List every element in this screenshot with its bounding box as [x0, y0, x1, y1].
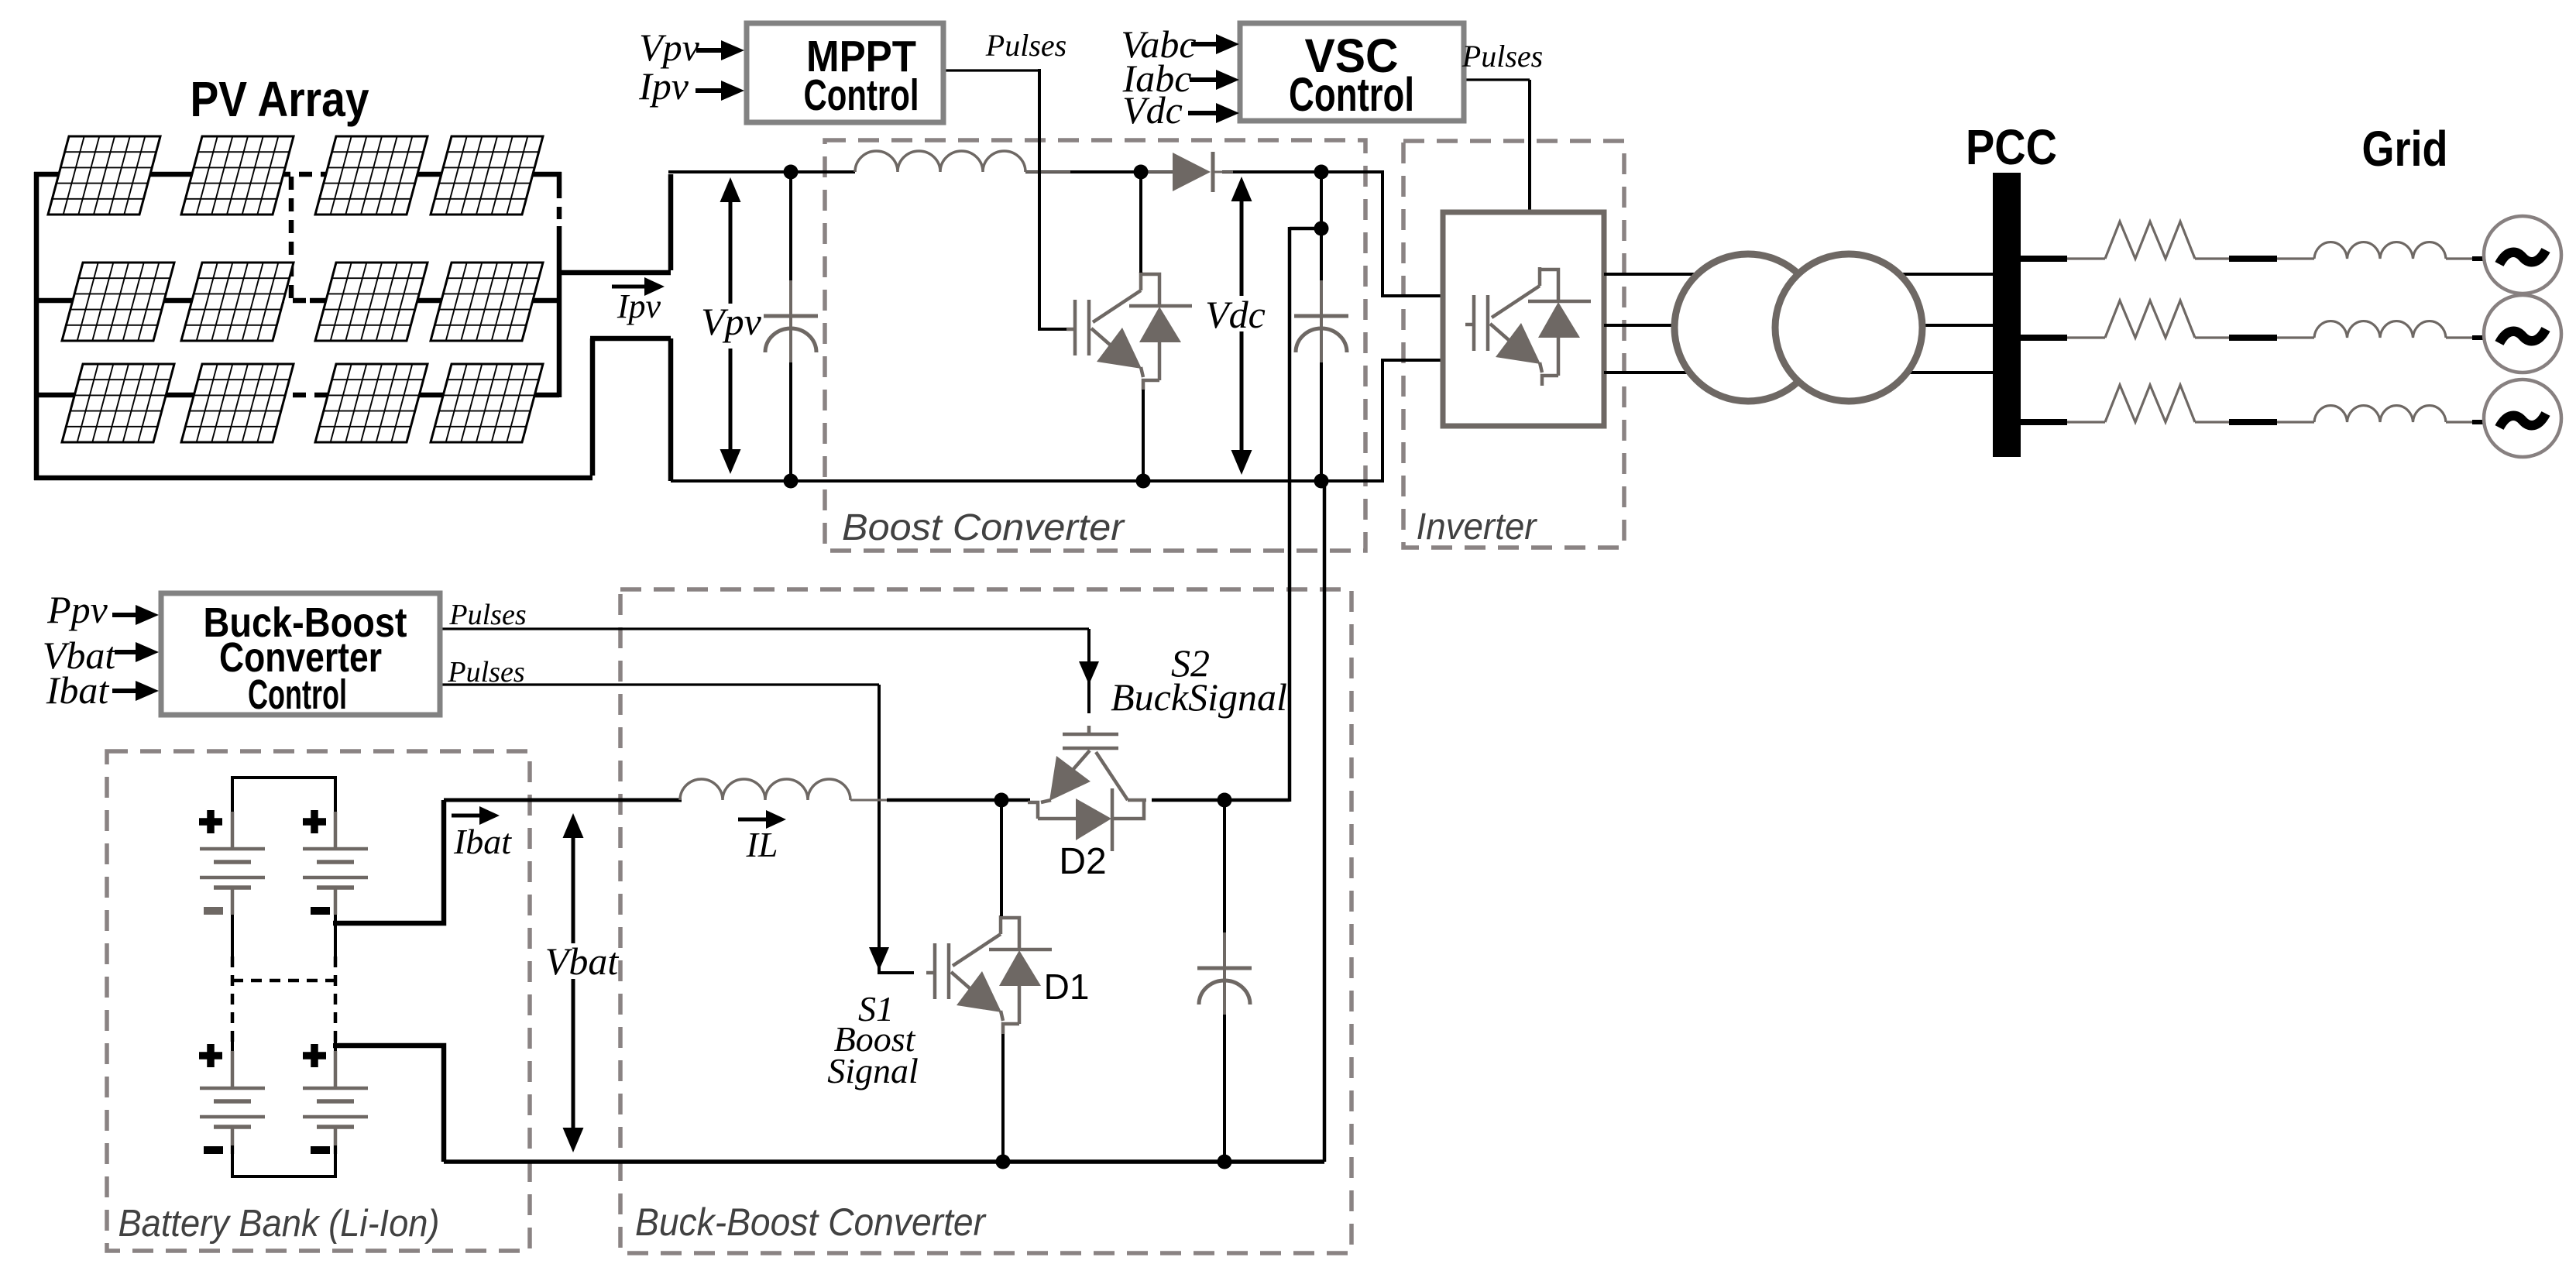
svg-text:D1: D1 — [1044, 967, 1090, 1007]
label - cell B1 — [311, 907, 330, 915]
label + cell A2 — [199, 1044, 222, 1067]
transformer secondary winding — [1775, 254, 1922, 401]
wire source stub phase a — [2472, 256, 2486, 261]
buck-boost bottom rail wire — [444, 1159, 1324, 1164]
inductor Lc grid — [2314, 406, 2446, 422]
wire MPPT pulses vertical — [1039, 69, 1066, 329]
resistor Rc grid — [2105, 385, 2195, 422]
wire buck-boost pulses 2 horizontal — [440, 683, 879, 685]
PV panel row1 col4 — [431, 136, 543, 215]
DC top rail corner drop to inverter — [1382, 170, 1443, 296]
svg-text:Ipv: Ipv — [638, 64, 689, 108]
wire inverter output phase b — [1604, 324, 1993, 327]
svg-text:Vdc: Vdc — [1205, 293, 1266, 336]
wire S1 collector — [1000, 800, 1003, 916]
wire S1 gate drop — [878, 685, 881, 973]
wire battery string B link — [334, 1042, 337, 1051]
AC source Vb grid — [2484, 295, 2561, 373]
transistor S boost (IGBT/diode) — [1066, 272, 1192, 390]
wire inverter output phase a — [1604, 273, 1993, 276]
label + cell B2 — [303, 1044, 326, 1067]
PV right bus solid stub — [557, 172, 562, 186]
wire buck-boost pulses 1 horizontal — [440, 627, 1089, 630]
arrow Ipv input — [696, 88, 726, 93]
svg-text:Ibat: Ibat — [46, 668, 110, 712]
boost converter dashed boundary box — [825, 140, 1365, 551]
PV row 2 wire right segment — [310, 298, 562, 304]
arrow Vpv measure — [729, 197, 733, 454]
label Vdc measure bg — [1203, 296, 1268, 331]
inductor L buck-boost — [680, 779, 850, 800]
svg-text:IL: IL — [746, 825, 778, 864]
svg-text:Grid: Grid — [2362, 121, 2448, 177]
svg-text:Inverter: Inverter — [1417, 507, 1538, 548]
wire R-L link segment phase b — [2229, 335, 2277, 341]
VSC Control block — [1240, 23, 1464, 121]
svg-text:Vpv: Vpv — [639, 26, 700, 69]
PV return drop wire — [668, 338, 674, 481]
PV panel row1 col2 — [181, 136, 294, 215]
wire S1 gate horizontal — [878, 971, 914, 974]
node Cout rail — [1218, 1155, 1232, 1169]
wire inductor lead phase a — [2277, 257, 2314, 259]
svg-text:Ibat: Ibat — [453, 822, 512, 861]
wire S boost collector — [1139, 172, 1142, 273]
wire VSC pulses vertical — [1528, 80, 1531, 214]
label + cell B1 — [303, 810, 326, 833]
inductor Lb grid — [2314, 321, 2446, 338]
svg-text:Pulses: Pulses — [447, 656, 524, 689]
AC source Vc grid — [2484, 379, 2561, 457]
wire Cpv bottom lead — [789, 362, 792, 481]
svg-text:Ipv: Ipv — [617, 287, 661, 325]
DC bottom rail corner rise to inverter — [1382, 360, 1443, 483]
transistor S2 (IGBT/diode rotated) — [1028, 726, 1146, 851]
arrow Vabc input — [1191, 42, 1221, 46]
battery cell B2 — [303, 1051, 368, 1154]
node DC link jog — [1314, 222, 1329, 236]
PV right bus wire — [557, 226, 562, 397]
svg-text:Vbat: Vbat — [545, 939, 620, 983]
diode D boost — [1173, 153, 1211, 191]
Buck-Boost Converter Control block — [161, 593, 440, 715]
battery cell A2 — [200, 1051, 265, 1154]
wire Cout bottom lead — [1223, 1015, 1226, 1162]
wire battery string A link — [231, 1042, 234, 1051]
PV right bus dashed segment — [557, 186, 562, 226]
capacitor Cdc — [1294, 280, 1348, 364]
wire inductor lead phase b — [2277, 336, 2314, 338]
transformer primary winding — [1674, 254, 1822, 401]
svg-text:PCC: PCC — [1966, 119, 2057, 175]
wire Cdc bottom lead — [1320, 362, 1323, 481]
PV panel row2 col3 — [315, 263, 428, 341]
PV row 2 dashed wire segment — [249, 298, 310, 304]
PV panel row2 col4 — [431, 263, 543, 341]
diode D boost cathode bar — [1211, 152, 1215, 192]
wire battery string B upper — [334, 915, 337, 925]
wire inductor lead phase c — [2277, 421, 2314, 423]
inductor L boost — [855, 151, 1025, 172]
wire inductor lead — [1025, 171, 1070, 173]
wire battery output negative — [333, 1046, 444, 1162]
AC source Va grid — [2484, 216, 2561, 294]
arrow Vdc input — [1188, 111, 1221, 115]
capacitor Cpv — [764, 280, 818, 364]
PV panel row2 col2 — [181, 263, 294, 341]
MPPT Control block — [747, 23, 943, 122]
wire resistor lead phase c — [2067, 421, 2105, 423]
wire S1 node to S2 — [1001, 798, 1030, 802]
arrow Ppv input — [112, 613, 140, 617]
PV row 1 wire right segment — [328, 172, 562, 177]
inductor La grid — [2314, 242, 2446, 259]
wire S1 emitter — [1001, 1034, 1005, 1162]
arrow IL — [738, 818, 771, 822]
resistor Rb grid — [2105, 301, 2195, 338]
wire S2 output to node — [1152, 798, 1224, 802]
DC bottom rail wire — [671, 479, 1382, 483]
wire resistor lead phase a — [2067, 257, 2105, 259]
wire battery dashed jumper — [232, 979, 335, 983]
arrow Vbat input — [115, 650, 140, 654]
wire battery string B dashed — [334, 956, 338, 1042]
wire source lead phase b — [2446, 336, 2472, 338]
wire R-L link lead phase c — [2195, 421, 2229, 423]
PV return wire — [590, 336, 671, 342]
PV return riser wire — [590, 338, 596, 476]
wire R-L link segment phase a — [2229, 256, 2277, 262]
wire DC link positive drop — [1288, 227, 1292, 802]
PV array bottom wire — [34, 476, 592, 481]
PV output wire top — [557, 270, 671, 276]
arrow Iabc input — [1190, 77, 1221, 82]
wire resistor lead phase b — [2067, 336, 2105, 338]
transistor S1 (IGBT/diode) — [926, 915, 1052, 1034]
wire S boost emitter — [1142, 390, 1145, 481]
node S1 emitter rail — [996, 1155, 1011, 1169]
label Vbat measure bg — [544, 943, 617, 979]
svg-text:Pulses: Pulses — [1461, 39, 1543, 74]
battery cell B1 — [303, 812, 368, 915]
wire Cpv top lead — [789, 172, 792, 283]
wire R-L link segment phase c — [2229, 419, 2277, 425]
arrow Vdc measure — [1240, 197, 1244, 455]
wire DC link positive jog — [1290, 227, 1323, 231]
arrow Ibat input — [112, 689, 140, 693]
svg-text:Pulses: Pulses — [448, 599, 526, 631]
PV row 3 wire — [36, 393, 249, 398]
PV row 1 wire — [34, 172, 256, 177]
wire S2 gate drop — [1087, 629, 1091, 713]
PV panel row3 col1 — [62, 364, 174, 442]
diode D boost cathode lead — [1213, 171, 1233, 173]
wire PCC stub phase a — [2018, 256, 2067, 262]
wire battery string A upper — [231, 915, 234, 956]
inverter IGBT icon — [1465, 267, 1591, 386]
node S2 output — [1218, 793, 1232, 808]
DC top rail wire (diode to corner) — [1222, 170, 1382, 173]
PV panel row1 col1 — [48, 136, 160, 215]
battery bank dashed boundary box — [107, 751, 530, 1251]
svg-text:Battery Bank (Li-Ion): Battery Bank (Li-Ion) — [118, 1203, 440, 1245]
svg-text:Buck-Boost Converter: Buck-Boost Converter — [635, 1200, 987, 1244]
node Cpv bottom — [784, 474, 799, 489]
node S boost collector — [1134, 165, 1149, 180]
wire PCC stub phase c — [2018, 419, 2067, 425]
PV middle dashed string link — [289, 177, 294, 298]
wire Cout top lead — [1223, 800, 1226, 937]
arrow Vbat measure — [572, 833, 575, 1132]
wire inductor lead right — [850, 799, 891, 802]
svg-text:D2: D2 — [1059, 841, 1106, 882]
PV row 2 wire — [36, 298, 249, 304]
node S boost emitter — [1136, 474, 1151, 489]
PV panel row3 col2 — [181, 364, 294, 442]
svg-text:Pulses: Pulses — [985, 28, 1066, 63]
PV panel row3 col4 — [431, 364, 543, 442]
DC top rail wire (Vpv node to inductor) — [668, 170, 855, 173]
arrowhead S2 gate — [1079, 661, 1099, 685]
svg-text:Ppv: Ppv — [46, 588, 108, 631]
node S1 collector — [994, 793, 1009, 808]
svg-text:BuckSignal: BuckSignal — [1111, 675, 1287, 719]
battery cell A1 — [200, 812, 265, 915]
inverter block box — [1443, 212, 1604, 426]
wire MPPT pulses horizontal — [943, 69, 1039, 71]
svg-text:Control: Control — [804, 70, 919, 120]
svg-text:Control: Control — [248, 671, 347, 718]
wire DC link negative drop — [1323, 481, 1327, 1162]
resistor Ra grid — [2105, 222, 2195, 259]
PV row 1 dashed wire segment — [256, 172, 328, 177]
wire R-L link lead phase b — [2195, 336, 2229, 338]
arrow Ibat flow — [452, 814, 484, 818]
PCC bus bar — [1993, 173, 2021, 457]
svg-text:Boost Converter: Boost Converter — [842, 507, 1125, 548]
wire R-L link lead phase a — [2195, 257, 2229, 259]
wire source lead phase c — [2446, 421, 2472, 423]
svg-text:Vdc: Vdc — [1122, 88, 1183, 132]
buck-boost converter dashed boundary box — [620, 589, 1352, 1253]
svg-text:Control: Control — [1289, 68, 1414, 121]
inverter dashed boundary box — [1403, 141, 1624, 548]
wire inductor to S1 node — [887, 798, 1001, 802]
wire inverter output phase c — [1604, 371, 1993, 374]
PV row 3 wire right segment — [325, 393, 559, 398]
wire battery bottom jumper — [232, 1145, 335, 1176]
label Vpv measure bg — [702, 304, 761, 349]
arrowhead S1 gate — [869, 947, 889, 970]
arrow Ipv output — [612, 285, 649, 289]
PV panel row1 col3 — [315, 136, 428, 215]
svg-text:Vpv: Vpv — [701, 300, 762, 343]
DC top rail wire (inductor to diode) — [1025, 170, 1173, 173]
node DC link tap — [1314, 165, 1329, 180]
arrow Vpv input — [696, 48, 726, 53]
wire battery string A dashed — [231, 956, 235, 1042]
PV panel row2 col1 — [62, 263, 174, 341]
PV panel row3 col3 — [315, 364, 428, 442]
label - cell A2 — [204, 1146, 223, 1154]
capacitor Cout buck-boost — [1197, 932, 1252, 1016]
wire battery output positive — [333, 800, 444, 923]
wire source stub phase b — [2472, 335, 2486, 340]
wire PCC stub phase b — [2018, 335, 2067, 341]
wire Cdc top lead — [1320, 228, 1323, 283]
svg-text:PV Array: PV Array — [191, 71, 369, 127]
label + cell A1 — [199, 810, 222, 833]
node Cpv top — [784, 165, 799, 180]
wire source stub phase c — [2472, 420, 2486, 424]
label - cell A1 — [204, 907, 223, 915]
diode D boost anode lead — [1146, 171, 1173, 173]
PV output riser wire — [668, 174, 674, 270]
PV array left bus wire — [34, 172, 39, 480]
label - cell B2 — [311, 1146, 330, 1154]
wire DC link tap vertical — [1320, 172, 1323, 228]
wire DC link positive to S2 node — [1224, 798, 1290, 802]
wire battery string B mid — [334, 923, 337, 956]
wire source lead phase a — [2446, 257, 2472, 259]
node Cdc bottom — [1314, 474, 1329, 489]
wire battery top jumper — [232, 778, 335, 812]
svg-text:Signal: Signal — [827, 1051, 919, 1090]
wire Ibat node to inductor — [444, 798, 682, 802]
PV row 3 dashed wire segment — [249, 393, 325, 398]
wire VSC pulses horizontal — [1464, 78, 1530, 81]
